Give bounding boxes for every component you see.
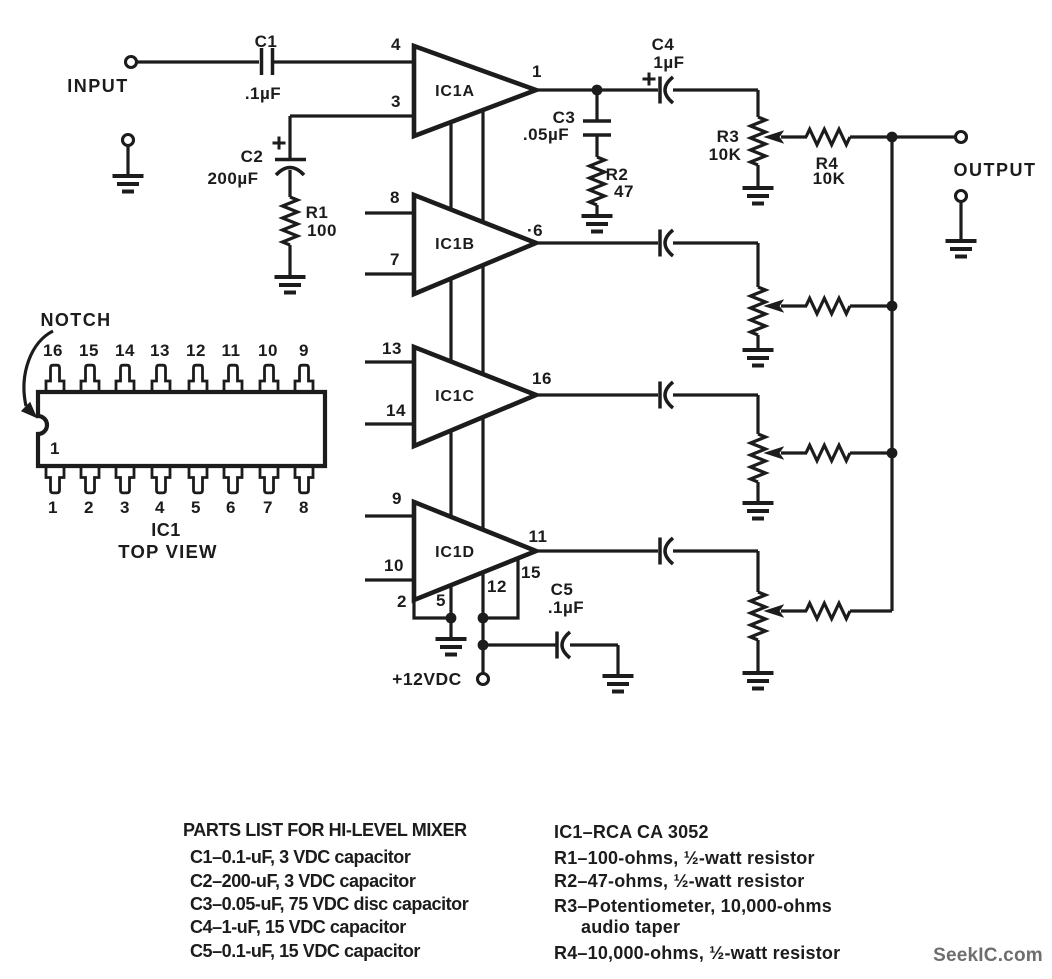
DIP pin 16 (top row) <box>46 365 64 392</box>
level potentiometer (IC1D) <box>751 592 766 640</box>
svg-text:9: 9 <box>299 341 309 360</box>
svg-text:IC1A: IC1A <box>435 83 475 100</box>
svg-text:C5: C5 <box>551 580 574 599</box>
svg-text:IC1: IC1 <box>151 520 181 540</box>
DIP pin 15 (top row) <box>81 365 99 392</box>
svg-text:12: 12 <box>487 577 507 596</box>
svg-text:10K: 10K <box>709 145 742 164</box>
DIP pin 5 (bottom row) <box>189 466 207 493</box>
wire resistor to bus (IC1C) <box>850 451 892 454</box>
wire to OUTPUT terminal <box>892 135 955 138</box>
wire bias rail pin 5 (vertical, behind amps) <box>449 122 452 618</box>
svg-text:8: 8 <box>390 188 400 207</box>
svg-text:R3–Potentiometer, 10,000-ohms: R3–Potentiometer, 10,000-ohms <box>554 896 832 916</box>
svg-text:8: 8 <box>299 498 309 517</box>
svg-text:11: 11 <box>222 341 241 360</box>
mixing resistor (IC1C) <box>806 445 850 461</box>
svg-text:6: 6 <box>226 498 236 517</box>
svg-text:4: 4 <box>155 498 165 517</box>
capacitor C4 1uF (polarized) <box>658 77 662 104</box>
op-amp IC1C <box>414 347 536 446</box>
svg-text:3: 3 <box>120 498 130 517</box>
svg-text:R4–10,000-ohms, ½-watt resisto: R4–10,000-ohms, ½-watt resistor <box>554 943 840 963</box>
junction node on bus (IC1C) <box>887 448 898 459</box>
ground below C5 <box>603 674 634 678</box>
ground below pot (IC1B) <box>743 348 774 352</box>
ground below R1 <box>275 275 306 279</box>
wire C5 to ground <box>570 643 618 646</box>
wire pin 13 stub <box>365 360 414 363</box>
level potentiometer (IC1B) <box>751 287 766 335</box>
wire pin 10 stub <box>365 578 414 581</box>
svg-text:13: 13 <box>382 339 402 358</box>
svg-text:2: 2 <box>397 592 407 611</box>
DIP pin 14 (top row) <box>116 365 134 392</box>
svg-text:11: 11 <box>529 527 548 546</box>
svg-text:5: 5 <box>191 498 201 517</box>
op-amp IC1D <box>414 502 536 600</box>
svg-text:10K: 10K <box>813 169 846 188</box>
DIP pin 10 (top row) <box>260 365 278 392</box>
junction node on bus (IC1B) <box>887 301 898 312</box>
svg-text:R3: R3 <box>717 127 740 146</box>
wire pot to ground (IC1D) <box>756 640 759 673</box>
svg-text:14: 14 <box>386 401 406 420</box>
junction node pin5/pin2 ground <box>446 613 457 624</box>
wire R3 to ground <box>756 165 759 188</box>
DIP pin 11 (top row) <box>224 365 242 392</box>
wire capacitor to level pot (IC1C) <box>673 393 758 396</box>
svg-text:13: 13 <box>150 341 170 360</box>
capacitor C3 .05uF <box>595 90 598 121</box>
wire pin 8 stub <box>365 211 414 214</box>
svg-text:16: 16 <box>532 369 552 388</box>
svg-text:47: 47 <box>614 182 634 201</box>
ground below pot (IC1C) <box>743 501 774 505</box>
capacitor C1 .1uF <box>260 48 264 75</box>
potentiometer R3 10K <box>751 117 766 165</box>
resistor R2 47 <box>590 157 605 205</box>
svg-text:IC1C: IC1C <box>435 388 475 405</box>
junction node pin12/pin15 <box>478 613 489 624</box>
op-amp IC1B <box>414 195 536 294</box>
op-amp IC1A <box>414 46 536 136</box>
wire C3 to R2 <box>595 135 598 157</box>
DIP pin 3 (bottom row) <box>116 466 134 493</box>
DIP pin 6 (bottom row) <box>224 466 242 493</box>
svg-text:1: 1 <box>48 498 58 517</box>
svg-text:9: 9 <box>392 489 402 508</box>
ground below pin 5 <box>449 618 452 639</box>
svg-text:1: 1 <box>532 62 542 81</box>
svg-text:C1: C1 <box>255 32 278 51</box>
DIP pin 1 (bottom row) <box>46 466 64 493</box>
wire supply node down <box>481 618 484 673</box>
svg-text:IC1B: IC1B <box>435 236 475 253</box>
svg-text:SeekIC.com: SeekIC.com <box>933 945 1043 966</box>
terminal OUTPUT <box>956 132 967 143</box>
resistor R1 100 <box>283 197 298 245</box>
wire bias rail pin 12 (vertical, behind amps) <box>481 110 484 618</box>
coupling capacitor (IC1D output) <box>658 538 662 565</box>
wire pot to ground (IC1C) <box>756 482 759 503</box>
svg-text:14: 14 <box>115 341 135 360</box>
wire pin 3 stub from C2 corner <box>290 114 414 117</box>
capacitor C2 200uF (polarized) <box>275 158 306 162</box>
DIP pin 4 (bottom row) <box>152 466 170 493</box>
svg-text:NOTCH: NOTCH <box>41 310 112 330</box>
wire IC1D output to coupling capacitor <box>536 549 658 552</box>
svg-text:10: 10 <box>258 341 278 360</box>
svg-text:2: 2 <box>84 498 94 517</box>
wire pin 9 stub <box>365 514 414 517</box>
coupling capacitor (IC1C output) <box>658 382 662 409</box>
wire resistor to bus (IC1D) <box>850 609 892 612</box>
svg-text:7: 7 <box>263 498 273 517</box>
DIP pin 2 (bottom row) <box>81 466 99 493</box>
svg-text:200µF: 200µF <box>207 169 258 188</box>
svg-text:R1: R1 <box>306 203 329 222</box>
svg-text:R2–47-ohms, ½-watt resistor: R2–47-ohms, ½-watt resistor <box>554 871 804 891</box>
svg-text:C1–0.1-uF, 3 VDC capacitor: C1–0.1-uF, 3 VDC capacitor <box>190 847 411 867</box>
svg-text:4: 4 <box>391 35 401 54</box>
junction node at C3 tap <box>592 85 603 96</box>
wire pin 2 from IC1D corner <box>414 599 451 618</box>
DIP pin 13 (top row) <box>152 365 170 392</box>
svg-text:TOP VIEW: TOP VIEW <box>118 541 217 562</box>
svg-text:5: 5 <box>436 591 446 610</box>
svg-text:1: 1 <box>50 439 60 458</box>
ground below R2 <box>582 214 613 218</box>
DIP pin 9 (top row) <box>295 365 313 392</box>
wire C1 to pin 4 <box>274 60 414 63</box>
svg-text:C4–1-uF, 15 VDC capacitor: C4–1-uF, 15 VDC capacitor <box>190 917 406 937</box>
svg-text:INPUT: INPUT <box>67 76 129 96</box>
wire R4 to output junction <box>850 135 892 138</box>
mixing resistor (IC1B) <box>806 298 850 314</box>
wire C2 to R1 <box>288 170 291 197</box>
svg-text:.1µF: .1µF <box>245 84 281 103</box>
terminal +12VDC <box>478 674 489 685</box>
svg-text:3: 3 <box>391 92 401 111</box>
svg-text:10: 10 <box>384 556 404 575</box>
svg-text:.05µF: .05µF <box>523 125 569 144</box>
wire IC1C output to coupling capacitor <box>536 393 658 396</box>
DIP pin 7 (bottom row) <box>260 466 278 493</box>
svg-text:15: 15 <box>521 563 541 582</box>
wire INPUT to C1 <box>137 60 259 63</box>
wire pot to ground (IC1B) <box>756 335 759 350</box>
wire pin 7 stub <box>365 272 414 275</box>
ground below pot (IC1D) <box>743 671 774 675</box>
IC1 DIP-16 package body (top view) <box>38 392 325 466</box>
wire output bus (vertical) <box>890 137 893 611</box>
svg-text:OUTPUT: OUTPUT <box>954 160 1037 180</box>
svg-text:15: 15 <box>79 341 99 360</box>
svg-text:IC1D: IC1D <box>435 544 475 561</box>
wire IC1B output to coupling capacitor <box>536 241 658 244</box>
svg-text:C5–0.1-uF, 15 VDC capacitor: C5–0.1-uF, 15 VDC capacitor <box>190 941 420 961</box>
ground below OUTPUT <box>956 191 967 202</box>
svg-text:C2: C2 <box>241 147 264 166</box>
svg-text:100: 100 <box>307 221 337 240</box>
svg-text:.1µF: .1µF <box>548 598 584 617</box>
terminal INPUT <box>126 57 137 68</box>
resistor R4 10K <box>806 129 850 145</box>
wire resistor to bus (IC1B) <box>850 304 892 307</box>
wire IC1A output pin 1 to C4 <box>536 88 658 91</box>
ground below R3 <box>743 186 774 190</box>
DIP pin 8 (bottom row) <box>295 466 313 493</box>
svg-text:C3–0.05-uF, 75 VDC disc capaci: C3–0.05-uF, 75 VDC disc capacitor <box>190 894 469 914</box>
coupling capacitor (IC1B output) <box>658 230 662 257</box>
svg-text:+12VDC: +12VDC <box>392 669 462 689</box>
svg-text:IC1–RCA CA 3052: IC1–RCA CA 3052 <box>554 822 709 842</box>
wire pin 14 stub <box>365 422 414 425</box>
ground below INPUT <box>123 135 134 146</box>
svg-text:C2–200-uF, 3 VDC capacitor: C2–200-uF, 3 VDC capacitor <box>190 871 416 891</box>
DIP pin 12 (top row) <box>189 365 207 392</box>
svg-text:audio taper: audio taper <box>581 917 680 937</box>
wire R2 to ground <box>595 205 598 216</box>
svg-text:1µF: 1µF <box>653 53 684 72</box>
svg-text:12: 12 <box>186 341 206 360</box>
wire to capacitor C5 <box>483 643 556 646</box>
svg-text:7: 7 <box>390 250 400 269</box>
wire R1 to ground <box>288 245 291 277</box>
wire C4 to R3 top <box>673 88 758 91</box>
notch arrow (curved) <box>24 331 53 406</box>
level potentiometer (IC1C) <box>751 434 766 482</box>
wire pin 15 to pin 12 rail <box>483 558 518 618</box>
svg-text:·6: ·6 <box>527 221 543 240</box>
mixing resistor (IC1D) <box>806 603 850 619</box>
wire capacitor to level pot (IC1B) <box>673 241 758 244</box>
capacitor C5 .1uF <box>555 632 559 659</box>
svg-text:C4: C4 <box>652 35 675 54</box>
svg-text:PARTS LIST FOR HI-LEVEL MIXER: PARTS LIST FOR HI-LEVEL MIXER <box>183 820 467 840</box>
svg-text:16: 16 <box>43 341 63 360</box>
junction node output bus top <box>887 132 898 143</box>
junction node C5 tap <box>478 640 489 651</box>
wire capacitor to level pot (IC1D) <box>673 549 758 552</box>
svg-text:R1–100-ohms, ½-watt resistor: R1–100-ohms, ½-watt resistor <box>554 848 815 868</box>
